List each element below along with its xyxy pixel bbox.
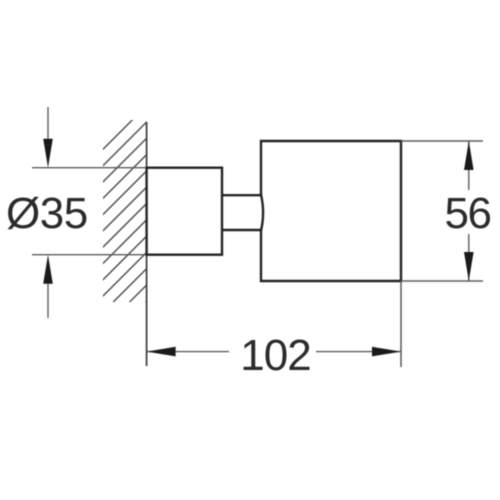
svg-text:Ø35: Ø35 xyxy=(6,189,88,238)
mount cylinder outline xyxy=(147,168,222,255)
102 arrow left xyxy=(147,347,176,357)
extension line 56 top xyxy=(401,140,483,142)
56 dimension line upper segment xyxy=(468,141,470,190)
Ø35 arrow down xyxy=(43,139,53,168)
56 dimension line lower segment xyxy=(468,234,470,281)
extension line Ø35 top xyxy=(32,167,147,169)
svg-text:102: 102 xyxy=(240,331,310,380)
extension line Ø35 bottom xyxy=(32,254,147,256)
102 dimension line left segment xyxy=(147,351,229,353)
102 dimension line right segment xyxy=(316,351,401,353)
wall hatching xyxy=(0,100,348,320)
56 arrow up xyxy=(464,141,474,170)
extension line cup right, down xyxy=(400,281,402,367)
svg-text:56: 56 xyxy=(445,189,491,238)
Ø35 arrow up xyxy=(43,255,53,284)
Ø35 dimension lower arrow line xyxy=(47,283,49,318)
Ø35 dimension upper arrow line xyxy=(47,107,49,142)
wall face line with extension down xyxy=(146,122,148,366)
connector stem xyxy=(222,195,263,231)
102 arrow right xyxy=(372,347,401,357)
extension line 56 bottom xyxy=(401,280,483,282)
holder cup outline xyxy=(261,141,401,281)
56 arrow down xyxy=(464,252,474,281)
